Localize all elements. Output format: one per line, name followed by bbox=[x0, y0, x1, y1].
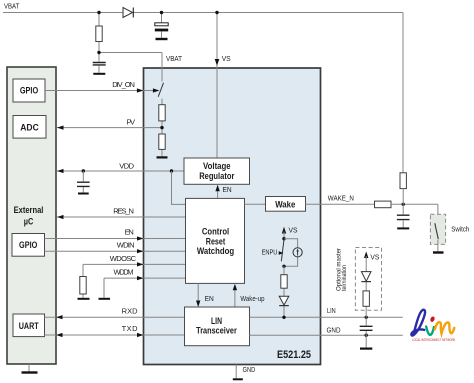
svg-text:termination: termination bbox=[341, 265, 348, 291]
svg-text:RXD: RXD bbox=[122, 306, 139, 315]
svg-text:Wake-up: Wake-up bbox=[240, 294, 264, 303]
svg-text:Transceiver: Transceiver bbox=[196, 326, 237, 337]
svg-text:VS: VS bbox=[289, 226, 298, 235]
svg-text:E521.25: E521.25 bbox=[277, 349, 311, 361]
svg-text:TXD: TXD bbox=[122, 324, 139, 333]
svg-text:GND: GND bbox=[243, 365, 256, 374]
svg-text:ADC: ADC bbox=[20, 122, 39, 132]
svg-text:EN: EN bbox=[125, 227, 134, 236]
svg-text:WAKE_N: WAKE_N bbox=[328, 194, 354, 203]
svg-text:VBAT: VBAT bbox=[166, 54, 182, 63]
svg-text:GND: GND bbox=[327, 325, 341, 334]
svg-text:VBAT: VBAT bbox=[4, 2, 20, 11]
svg-text:VS: VS bbox=[222, 54, 231, 63]
svg-text:µC: µC bbox=[24, 217, 34, 227]
svg-text:Wake: Wake bbox=[275, 199, 295, 210]
svg-text:External: External bbox=[14, 205, 44, 215]
svg-text:WDOSC: WDOSC bbox=[110, 254, 137, 263]
svg-text:VDD: VDD bbox=[119, 161, 134, 170]
svg-text:DIV_ON: DIV_ON bbox=[112, 80, 135, 89]
svg-text:LIN: LIN bbox=[327, 306, 336, 315]
svg-text:VS: VS bbox=[370, 253, 379, 262]
svg-text:Regulator: Regulator bbox=[199, 171, 234, 182]
svg-text:WDDM: WDDM bbox=[114, 268, 134, 277]
svg-text:UART: UART bbox=[19, 321, 39, 331]
svg-text:GPIO: GPIO bbox=[19, 240, 37, 250]
svg-text:RES_N: RES_N bbox=[113, 207, 134, 216]
svg-text:EN: EN bbox=[205, 294, 214, 303]
svg-text:GPIO: GPIO bbox=[20, 86, 38, 96]
svg-text:Watchdog: Watchdog bbox=[197, 246, 234, 257]
svg-text:Switch: Switch bbox=[451, 225, 469, 234]
svg-text:EN: EN bbox=[223, 185, 232, 194]
svg-text:ENPU: ENPU bbox=[262, 248, 278, 257]
svg-text:LOCAL INTERCONNECT NETWORK: LOCAL INTERCONNECT NETWORK bbox=[412, 338, 456, 342]
svg-text:PV: PV bbox=[127, 118, 136, 127]
svg-text:WDIN: WDIN bbox=[117, 240, 135, 249]
